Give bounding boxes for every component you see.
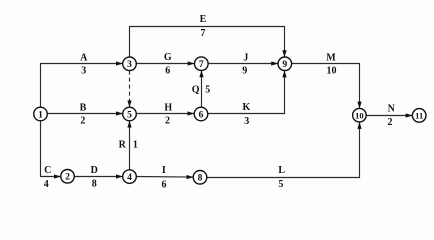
svg-text:9: 9	[242, 66, 247, 77]
svg-text:10: 10	[355, 111, 364, 121]
svg-text:6: 6	[165, 66, 170, 77]
svg-text:I: I	[162, 165, 166, 176]
svg-text:3: 3	[127, 59, 132, 70]
svg-text:5: 5	[127, 109, 132, 120]
svg-text:8: 8	[92, 179, 97, 190]
wire activity Q (6 to 7)	[201, 71, 203, 108]
node 11	[412, 109, 426, 123]
svg-text:2: 2	[165, 116, 170, 127]
svg-text:R: R	[119, 140, 127, 151]
svg-text:10: 10	[327, 66, 337, 77]
node 6	[194, 107, 208, 121]
svg-text:2: 2	[80, 116, 85, 127]
svg-text:Q: Q	[192, 85, 200, 96]
svg-text:L: L	[278, 165, 285, 176]
svg-text:9: 9	[282, 59, 287, 70]
svg-text:G: G	[164, 52, 172, 63]
svg-text:11: 11	[415, 111, 423, 121]
wire dummy activity (3 to 5) dashed	[129, 71, 131, 108]
wire activity I (4 to 8)	[136, 176, 193, 179]
node 1	[34, 107, 48, 121]
node 10	[353, 108, 367, 122]
wire activity R (4 to 5)	[129, 121, 131, 170]
svg-text:7: 7	[200, 28, 205, 39]
wire activity D (2 to 4)	[74, 176, 122, 178]
svg-text:J: J	[243, 52, 248, 63]
wire activity K (6 to 9)	[208, 71, 285, 114]
wire activity J (7 to 9)	[208, 63, 278, 65]
wire activity M (9 to 10)	[292, 64, 360, 109]
svg-text:3: 3	[244, 116, 249, 127]
svg-text:N: N	[388, 103, 396, 114]
svg-text:K: K	[243, 102, 251, 113]
node 8	[193, 171, 207, 185]
svg-text:5: 5	[278, 179, 283, 190]
node 2	[61, 170, 75, 184]
svg-text:6: 6	[162, 180, 167, 191]
svg-text:6: 6	[199, 109, 204, 120]
svg-text:E: E	[200, 14, 207, 25]
svg-text:1: 1	[133, 140, 138, 151]
wire activity C (1 to 2)	[41, 121, 61, 177]
svg-text:2: 2	[65, 172, 70, 183]
svg-text:4: 4	[44, 179, 49, 190]
wire activity A (1 to 3)	[41, 64, 123, 108]
svg-text:C: C	[44, 165, 51, 176]
node 3	[123, 57, 137, 71]
node 7	[195, 57, 209, 71]
svg-text:4: 4	[127, 172, 132, 183]
svg-text:D: D	[91, 165, 98, 176]
svg-text:M: M	[326, 52, 336, 63]
wire activity L (8 to 10)	[207, 122, 360, 177]
svg-text:A: A	[80, 52, 88, 63]
wire activity N (10 to 11)	[366, 115, 412, 117]
wire activity B (1 to 5)	[47, 113, 122, 115]
node 5	[123, 107, 137, 121]
svg-text:3: 3	[81, 66, 86, 77]
wire activity H (5 to 6)	[136, 113, 194, 115]
svg-text:8: 8	[198, 173, 203, 184]
svg-text:H: H	[164, 102, 172, 113]
svg-text:B: B	[80, 102, 87, 113]
svg-text:7: 7	[199, 59, 204, 70]
node 4	[123, 170, 137, 184]
svg-text:2: 2	[388, 117, 393, 128]
node 9	[278, 57, 292, 71]
svg-text:5: 5	[205, 85, 210, 96]
wire activity E (3 to 9)	[130, 27, 285, 58]
svg-text:1: 1	[38, 109, 43, 120]
wire activity G (3 to 7)	[136, 63, 194, 65]
